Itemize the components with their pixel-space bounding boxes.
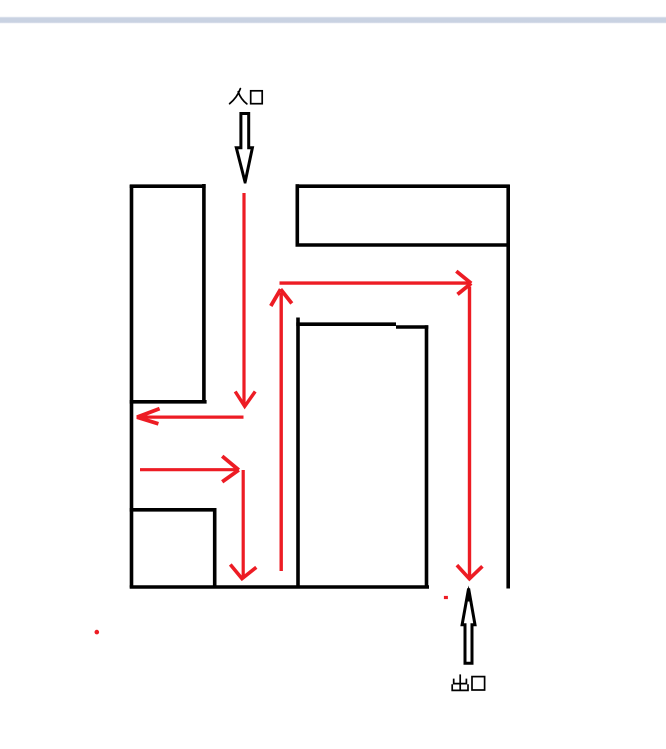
red route: top rightward line: [280, 281, 469, 284]
red route: rightward arrowhead: [222, 456, 239, 482]
red route: leftward line: [137, 416, 244, 419]
red route: top rightward arrowhead: [456, 271, 471, 294]
wall: top-right room left edge: [295, 184, 299, 245]
red route: middle descent line: [242, 470, 245, 576]
red route: upward line: [280, 293, 283, 571]
label 入口 (entrance): [230, 89, 263, 104]
wall: left outer wall: [130, 185, 134, 588]
exit hollow arrow (up): [462, 589, 475, 664]
wall: right outer wall: [506, 185, 510, 589]
red dot left: [95, 630, 100, 635]
red route: upward arrowhead: [271, 289, 292, 306]
red route: right descent line: [468, 287, 471, 577]
entrance hollow arrow (down): [236, 114, 252, 183]
wall: center room top edge left part: [296, 322, 396, 326]
wall: center room top edge right part: [396, 325, 428, 329]
wall: top-right room top edge: [296, 184, 510, 188]
red route: leftward arrowhead: [137, 409, 160, 424]
red route: middle descent arrowhead: [230, 565, 256, 579]
wall: left room top edge: [130, 184, 206, 188]
wall: bottom wall: [130, 585, 429, 589]
top toolbar band: [0, 16, 666, 23]
label 出口 (exit): [452, 674, 484, 690]
red route: entry descent line: [242, 193, 245, 404]
red route: rightward line: [140, 468, 237, 471]
wall: top-right room bottom edge: [296, 243, 507, 247]
wall: left room bottom edge: [130, 400, 207, 404]
red route: right descent arrowhead: [457, 565, 483, 579]
wall: left room right edge: [202, 184, 206, 402]
red route: entry descent arrowhead: [235, 392, 255, 407]
wall: center room left edge: [296, 318, 300, 588]
red dot near exit: [444, 596, 448, 599]
wall: bottom-left room top edge: [130, 508, 217, 512]
wall: bottom-left room right edge: [213, 508, 217, 587]
wall: center room right edge: [425, 325, 429, 586]
